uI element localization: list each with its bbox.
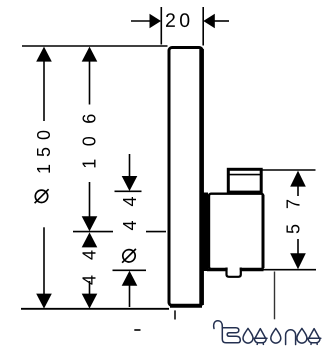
chain2 line mid	[89, 182, 91, 218]
housing body	[209, 194, 263, 269]
chain4 bottom ext line	[263, 269, 317, 271]
dim 20 right arrow	[203, 14, 215, 28]
housing bottom edge seg1	[207, 268, 227, 271]
letter o drop 1	[243, 328, 253, 343]
dim 20 left tail	[131, 20, 151, 22]
chain2 106 top arrow	[82, 47, 98, 62]
step inner line	[229, 174, 261, 176]
chain1 line upper	[43, 59, 45, 121]
chain1 line lower	[43, 227, 45, 296]
chain3 top ext line	[115, 190, 142, 192]
chain3 down arrow	[122, 176, 138, 191]
step box	[228, 169, 261, 192]
chain2 bowtie down arrow	[82, 216, 98, 231]
dim 20 left ext line	[160, 7, 162, 45]
chain2 bowtie up arrow	[82, 232, 98, 247]
chain3 line stub top	[129, 154, 131, 177]
chain4 57 top ext line	[263, 169, 316, 171]
chain2 bottom arrow	[82, 294, 98, 309]
chain3 up arrow	[122, 271, 138, 286]
chain2 line upper	[89, 59, 91, 105]
tick below plate	[174, 310, 176, 319]
chain2 mid ext line seg1	[73, 231, 113, 233]
letter o drop 2	[271, 328, 281, 343]
watermark logo	[214, 321, 321, 345]
chain2 mid ext line seg2	[146, 231, 166, 233]
dim 20 right tail	[214, 20, 229, 22]
letter d triangle 2	[309, 329, 320, 339]
chain1 bottom arrow	[36, 294, 52, 309]
letter V stem	[214, 321, 241, 343]
svg-text:20: 20	[165, 10, 194, 32]
housing bottom edge seg2	[241, 268, 264, 271]
letter d dish 1	[254, 338, 267, 344]
chain3 dia symbol	[123, 250, 135, 262]
letter a drop	[297, 328, 307, 343]
svg-text:106: 106	[80, 101, 100, 169]
svg-text:44: 44	[120, 182, 140, 230]
plate bottom edge thick	[170, 304, 202, 308]
svg-text:44: 44	[80, 235, 100, 285]
top extension line left	[22, 45, 168, 47]
notch	[227, 268, 241, 277]
plate body	[169, 48, 202, 306]
bottom extension line left	[21, 308, 169, 310]
chain4 down arrow	[290, 253, 306, 269]
dim 20 right ext line	[202, 7, 204, 46]
chain4 line lower	[297, 239, 299, 254]
vertical line bottom right	[274, 272, 276, 320]
chain2 line lower	[89, 281, 91, 296]
chain4 line upper	[297, 183, 299, 196]
chain3 line stub bottom	[129, 284, 131, 307]
housing flange black bar	[204, 193, 209, 272]
letter d triangle 1	[255, 329, 266, 339]
svg-text:150: 150	[34, 123, 54, 174]
letter d dish 2	[307, 338, 320, 344]
chain1 dia150 top arrow	[36, 47, 52, 62]
notch opening patch	[228, 266, 240, 273]
chain3 bottom ext line	[113, 269, 147, 271]
svg-text:57: 57	[284, 184, 304, 234]
small dash bottom left	[134, 329, 140, 331]
dim 20 left arrow	[150, 14, 162, 28]
chain1 dia symbol	[35, 190, 47, 202]
plate right edge thick	[199, 49, 204, 305]
letter p arch	[286, 330, 296, 345]
chain4 up arrow	[290, 171, 306, 187]
letter V bumps	[222, 328, 240, 341]
housing right edge	[262, 195, 265, 268]
